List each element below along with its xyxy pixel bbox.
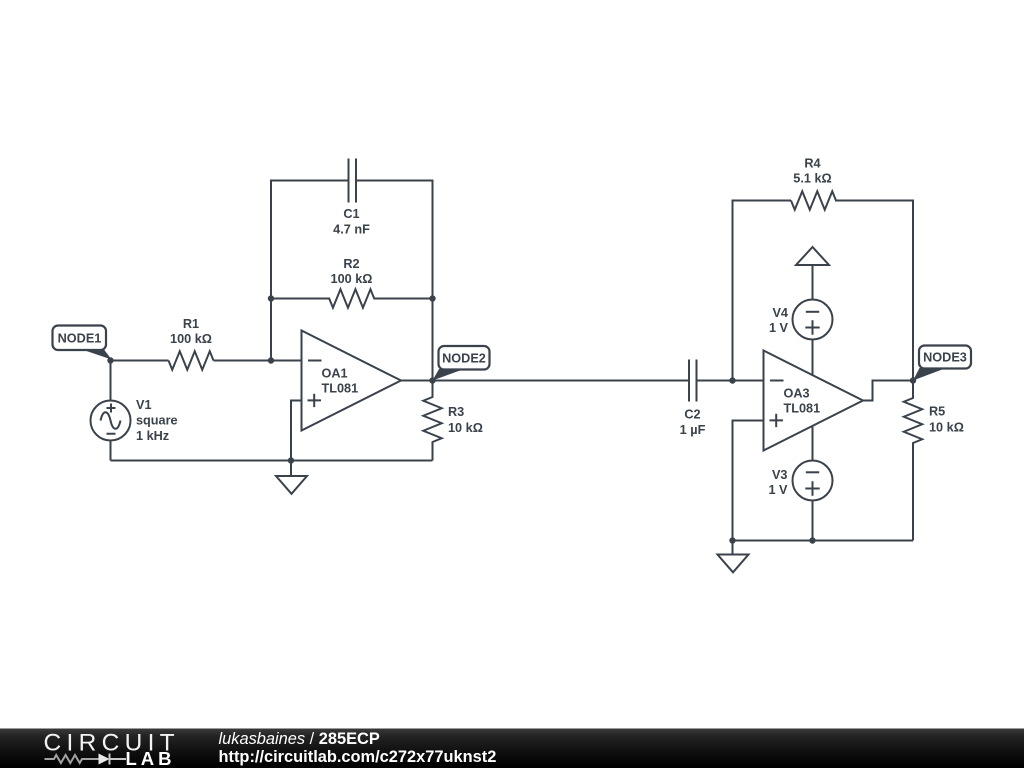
junction dot R2 right: [429, 295, 435, 301]
svg-text:10 kΩ: 10 kΩ: [448, 421, 483, 435]
node flag NODE2: [433, 346, 490, 381]
CircuitLab logo wordmark: [44, 730, 180, 768]
junction dot OA3 minus input: [729, 377, 735, 383]
resistor R1: [169, 317, 214, 370]
svg-text:1 kHz: 1 kHz: [136, 429, 169, 443]
svg-text:5.1 kΩ: 5.1 kΩ: [793, 172, 831, 186]
resistor R4: [791, 157, 836, 210]
capacitor C2: [680, 360, 764, 438]
svg-text:R1: R1: [183, 317, 199, 331]
wire input from NODE1 to op-amp minus: [111, 360, 302, 362]
power arrow: [796, 247, 829, 300]
svg-text:V3: V3: [772, 468, 788, 482]
voltage source V1: [91, 361, 178, 461]
svg-text:square: square: [136, 414, 178, 428]
svg-text:http://circuitlab.com/c272x77u: http://circuitlab.com/c272x77uknst2: [219, 748, 497, 766]
junction dot NODE2: [429, 377, 435, 383]
wire feedback top right OA3: [835, 201, 913, 381]
svg-text:OA3: OA3: [784, 387, 810, 401]
wire bottom rail left: [111, 460, 433, 462]
logo resistor-diode squiggle: [45, 754, 127, 765]
resistor R3: [423, 381, 483, 461]
junction dot left feedback at input wire: [268, 357, 274, 363]
wire OA3 output to NODE3: [863, 381, 913, 401]
wire op-amp output to NODE2 and across to C2: [401, 380, 689, 382]
junction dot NODE3: [910, 377, 916, 383]
wire OA3 plus input to ground rail: [733, 421, 764, 541]
wire feedback left vertical: [271, 181, 349, 361]
wire feedback left vertical OA3: [733, 201, 792, 381]
voltage source V3: [768, 426, 832, 541]
svg-text:V1: V1: [136, 398, 152, 412]
svg-text:R5: R5: [929, 405, 945, 419]
svg-text:TL081: TL081: [322, 382, 359, 396]
capacitor C1: [333, 159, 370, 237]
ground: [718, 541, 749, 573]
footer title text: [219, 730, 497, 766]
svg-text:R4: R4: [804, 157, 820, 171]
svg-text:4.7 nF: 4.7 nF: [333, 223, 370, 237]
junction dot R2 left: [268, 295, 274, 301]
junction dot ground rail: [288, 457, 294, 463]
svg-text:NODE1: NODE1: [58, 332, 102, 346]
junction dot bottom rail at ground: [729, 537, 735, 543]
svg-text:C2: C2: [684, 408, 700, 422]
resistor R2: [271, 257, 433, 308]
svg-text:NODE3: NODE3: [923, 351, 967, 365]
junction dot bottom rail at V3: [809, 537, 815, 543]
wire feedback top right: [356, 181, 433, 381]
footer black bar: [0, 729, 1024, 768]
voltage source V4: [769, 300, 833, 376]
svg-text:C1: C1: [343, 207, 359, 221]
svg-text:TL081: TL081: [784, 402, 821, 416]
svg-text:10 kΩ: 10 kΩ: [929, 421, 964, 435]
svg-text:V4: V4: [772, 306, 788, 320]
op-amp OA3: [764, 351, 864, 451]
svg-text:R3: R3: [448, 405, 464, 419]
svg-text:100 kΩ: 100 kΩ: [170, 332, 212, 346]
svg-text:LAB: LAB: [126, 748, 176, 768]
node flag NODE3: [913, 346, 971, 381]
svg-text:1 V: 1 V: [769, 321, 789, 335]
svg-text:1 V: 1 V: [768, 483, 788, 497]
wire bottom rail right: [733, 540, 914, 542]
svg-text:OA1: OA1: [322, 367, 348, 381]
svg-text:100 kΩ: 100 kΩ: [331, 272, 373, 286]
node flag NODE1: [53, 326, 112, 360]
op-amp OA1: [302, 331, 402, 431]
svg-text:R2: R2: [343, 257, 359, 271]
svg-text:lukasbaines / 285ECP: lukasbaines / 285ECP: [219, 730, 380, 748]
wire op-amp plus input to ground rail: [291, 401, 302, 461]
junction node at NODE1: [107, 357, 113, 363]
resistor R5: [904, 381, 964, 541]
svg-text:1 µF: 1 µF: [680, 423, 706, 437]
svg-text:NODE2: NODE2: [442, 352, 486, 366]
ground: [276, 461, 307, 494]
